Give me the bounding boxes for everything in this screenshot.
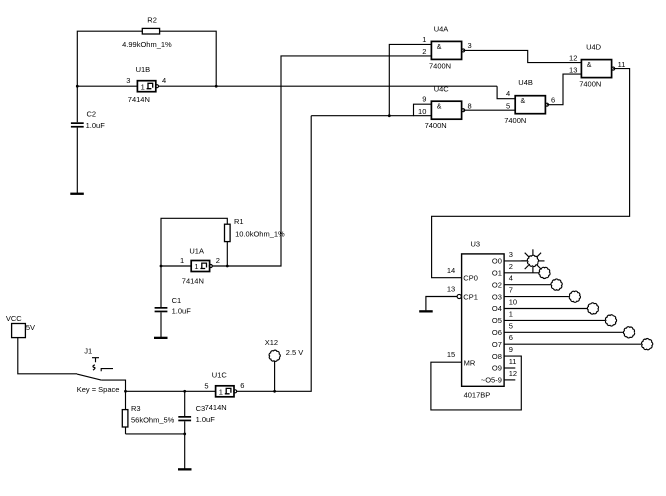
LED lamp on O0 <box>521 249 544 272</box>
power VCC <box>6 314 35 338</box>
svg-text:12: 12 <box>509 369 517 378</box>
svg-text:&: & <box>521 98 526 105</box>
label U4B <box>504 78 533 125</box>
wire MR loop to O8 <box>431 356 521 410</box>
switch J1 <box>77 347 113 381</box>
wire O9 stub <box>504 367 515 369</box>
ground under C1 <box>154 337 168 339</box>
pin numbers 1/2 of U1A <box>180 256 220 265</box>
wire O7 to lamp <box>504 343 641 345</box>
LED lamp on O5 <box>605 315 616 326</box>
svg-text:3: 3 <box>126 76 130 85</box>
svg-text:U4B: U4B <box>518 78 533 87</box>
svg-text:O4: O4 <box>492 304 502 313</box>
pin CP1 <box>447 285 478 302</box>
label U4D <box>579 43 601 89</box>
resistor R3 <box>122 391 174 434</box>
svg-text:14: 14 <box>447 266 455 275</box>
svg-text:2.5 V: 2.5 V <box>286 348 304 357</box>
nand U4A <box>431 41 464 59</box>
capacitor C1 <box>155 296 192 316</box>
svg-text:R3: R3 <box>131 404 141 413</box>
svg-text:7400N: 7400N <box>425 121 447 130</box>
svg-text:7400N: 7400N <box>429 61 451 70</box>
wire U1B input <box>77 85 137 87</box>
svg-text:1: 1 <box>180 256 184 265</box>
wire O4 to lamp <box>504 308 587 310</box>
svg-text:&: & <box>437 104 442 111</box>
svg-text:O6: O6 <box>492 328 502 337</box>
wire O5 to lamp <box>504 319 605 321</box>
svg-text:~O5-9: ~O5-9 <box>481 376 502 385</box>
label U1C <box>212 371 228 380</box>
wire CP1 to ground <box>426 297 457 311</box>
wire O3 to lamp <box>504 296 569 298</box>
svg-text:15: 15 <box>447 350 455 359</box>
svg-text:11: 11 <box>509 357 517 366</box>
wire ~O5-9 stub <box>504 379 515 381</box>
value label 7414N for U1A <box>182 277 204 286</box>
svg-text:7414N: 7414N <box>182 277 204 286</box>
svg-text:9: 9 <box>509 345 513 354</box>
svg-text:R2: R2 <box>147 15 157 24</box>
LED lamp on O6 <box>623 327 634 338</box>
ground under C3 <box>178 468 192 470</box>
svg-text:4.99kOhm_1%: 4.99kOhm_1% <box>122 40 172 49</box>
label U4C <box>425 84 450 130</box>
inverter U1B (7414 schmitt trigger) <box>137 81 158 92</box>
value label 7414N for U1C <box>205 403 227 412</box>
LED lamp on O2 <box>551 279 562 290</box>
wire U1A input to C1 <box>160 266 162 307</box>
label U1A <box>189 247 204 256</box>
ground under C2 <box>70 193 84 195</box>
pin 5 label (O6) <box>492 321 513 337</box>
IC U3 4017BP body <box>462 240 505 400</box>
svg-text:O8: O8 <box>492 352 502 361</box>
svg-text:5V: 5V <box>26 323 35 332</box>
wire U1C output <box>237 116 312 392</box>
svg-text:12: 12 <box>569 54 577 63</box>
node C3/R3 junction <box>183 433 186 436</box>
svg-text:3: 3 <box>509 250 513 259</box>
svg-text:13: 13 <box>569 65 577 74</box>
pin 2 label (O1) <box>492 262 513 278</box>
svg-text:J1: J1 <box>84 347 92 356</box>
svg-text:O5: O5 <box>492 316 502 325</box>
pin 10 label (O4) <box>492 298 517 314</box>
svg-text:&: & <box>587 62 592 69</box>
node C3/rail junction <box>183 390 186 393</box>
svg-text:8: 8 <box>468 101 472 110</box>
resistor R2 <box>122 15 172 49</box>
svg-text:O7: O7 <box>492 340 502 349</box>
LED lamp on O4 <box>587 303 598 314</box>
wire R1 bottom leg <box>226 242 228 266</box>
pin CP0 <box>447 266 478 283</box>
svg-text:1: 1 <box>141 82 145 91</box>
inverter U1C (7414 schmitt trigger) <box>216 386 237 397</box>
wire R1 top loop <box>161 218 227 266</box>
svg-text:1.0uF: 1.0uF <box>86 121 106 130</box>
node U1B input junction <box>76 85 79 88</box>
svg-text:11: 11 <box>618 60 626 69</box>
value label 7414N for U1B <box>128 95 150 104</box>
pin 11 label (O9) <box>492 357 517 373</box>
wire switch to rail <box>101 380 125 391</box>
svg-text:10: 10 <box>418 107 426 116</box>
wire R2 to right leg <box>160 31 217 86</box>
svg-text:1: 1 <box>194 262 198 271</box>
wire U1A input <box>161 265 191 267</box>
wire O1 to lamp <box>504 272 538 274</box>
svg-text:7414N: 7414N <box>128 95 150 104</box>
svg-text:C2: C2 <box>87 110 97 119</box>
svg-text:1: 1 <box>509 309 513 318</box>
svg-text:2: 2 <box>422 47 426 56</box>
svg-text:9: 9 <box>422 95 426 104</box>
svg-text:X12: X12 <box>265 338 278 347</box>
nand U4B <box>515 96 548 114</box>
wire U4C out to U4B pin5 <box>463 109 515 111</box>
node switch/R3 junction <box>124 390 127 393</box>
svg-text:1: 1 <box>219 388 223 397</box>
svg-text:2: 2 <box>509 262 513 271</box>
svg-text:U1C: U1C <box>212 371 228 380</box>
wire O0 to lamp <box>504 260 527 262</box>
pin MR <box>447 350 476 367</box>
pin labels U4C <box>418 95 472 116</box>
resistor R1 <box>225 217 286 242</box>
svg-text:O3: O3 <box>492 292 502 301</box>
svg-text:&: & <box>437 44 442 51</box>
svg-text:U3: U3 <box>471 240 481 249</box>
pin 6 label (O7) <box>492 333 513 349</box>
svg-text:4: 4 <box>509 274 513 283</box>
capacitor C2 <box>71 110 105 130</box>
svg-text:6: 6 <box>551 96 555 105</box>
wire U1B out drop to U4B pin4 <box>497 86 515 99</box>
LED lamp on O1 <box>539 267 550 278</box>
svg-text:O0: O0 <box>492 257 502 266</box>
probe X12 <box>265 338 304 391</box>
wire feed to U4A/U4C inputs <box>311 104 431 116</box>
svg-text:U1A: U1A <box>189 247 204 256</box>
LED lamp on O7 <box>642 339 653 350</box>
svg-text:7414N: 7414N <box>205 403 227 412</box>
svg-text:1: 1 <box>422 35 426 44</box>
node R2/output junction <box>215 85 218 88</box>
svg-text:U4D: U4D <box>586 43 602 52</box>
pin 3 label (O0) <box>492 250 513 266</box>
label U4A <box>429 25 451 71</box>
node feed junction <box>388 114 391 117</box>
svg-text:O2: O2 <box>492 280 502 289</box>
pin numbers 3/4 of U1B <box>126 76 166 85</box>
svg-text:10: 10 <box>509 298 517 307</box>
svg-text:4017BP: 4017BP <box>464 390 491 399</box>
svg-text:5: 5 <box>204 381 208 390</box>
svg-text:1.0uF: 1.0uF <box>196 415 216 424</box>
svg-text:MR: MR <box>464 358 476 367</box>
pin 4 label (O2) <box>492 274 513 290</box>
svg-text:13: 13 <box>447 285 455 294</box>
pin labels U4A <box>422 35 471 56</box>
pin 7 label (O3) <box>492 286 513 302</box>
wire C2 to ground <box>76 128 78 193</box>
wire U1B output <box>159 85 498 87</box>
wire VCC to switch <box>18 338 77 374</box>
capacitor C3 <box>178 391 215 424</box>
pin labels U4B <box>506 89 555 110</box>
svg-text:4: 4 <box>162 76 166 85</box>
wire C1 to ground <box>160 312 162 337</box>
pin numbers 5/6 of U1C <box>204 381 244 390</box>
wire U1A output to U4A pin2 <box>212 56 431 266</box>
svg-text:7400N: 7400N <box>579 80 601 89</box>
svg-text:5: 5 <box>509 321 513 330</box>
node R1/output junction <box>226 265 229 268</box>
wire U4A out to U4D pin12 <box>463 50 581 62</box>
svg-text:3: 3 <box>468 41 472 50</box>
svg-text:U4A: U4A <box>434 25 449 34</box>
label U1B <box>136 65 151 74</box>
svg-text:10.0kOhm_1%: 10.0kOhm_1% <box>235 230 285 239</box>
wire C3 to ground <box>184 421 186 468</box>
svg-text:O1: O1 <box>492 269 502 278</box>
svg-text:CP1: CP1 <box>463 292 478 301</box>
label Key = Space <box>77 385 120 394</box>
nand U4C <box>431 101 464 119</box>
pin 1 label (O5) <box>492 309 513 325</box>
wire R3 bottom to C3 leg <box>126 433 185 435</box>
svg-text:U4C: U4C <box>434 84 450 93</box>
pin 12 label (~O5-9) <box>481 369 517 385</box>
svg-text:7: 7 <box>509 286 513 295</box>
svg-text:6: 6 <box>509 333 513 342</box>
wire O2 to lamp <box>504 284 551 286</box>
svg-text:2: 2 <box>216 256 220 265</box>
node probe junction <box>273 390 276 393</box>
wire to U4A pin1 <box>389 44 431 115</box>
svg-text:1.0uF: 1.0uF <box>172 307 192 316</box>
svg-text:5: 5 <box>506 101 510 110</box>
wire R2 top-left <box>77 31 142 122</box>
svg-text:56kOhm_5%: 56kOhm_5% <box>131 416 175 425</box>
inverter U1A (7414 schmitt trigger) <box>191 261 212 272</box>
wire rail to U1C <box>126 390 216 392</box>
svg-text:7400N: 7400N <box>504 116 526 125</box>
wire O6 to lamp <box>504 331 623 333</box>
nand U4D <box>581 60 614 78</box>
LED lamp on O3 <box>569 291 580 302</box>
wire U4B out to U4D pin13 <box>547 74 581 105</box>
svg-text:C1: C1 <box>172 296 182 305</box>
node U1A input junction <box>160 265 163 268</box>
svg-text:O9: O9 <box>492 364 502 373</box>
svg-text:6: 6 <box>240 381 244 390</box>
svg-text:CP0: CP0 <box>463 274 478 283</box>
pin labels U4D <box>569 54 625 75</box>
wire U4D out to U3 CP0 <box>432 69 630 278</box>
ground at CP1 <box>419 310 433 312</box>
svg-text:U1B: U1B <box>136 65 151 74</box>
svg-text:4: 4 <box>506 89 510 98</box>
svg-text:Key = Space: Key = Space <box>77 385 120 394</box>
svg-text:VCC: VCC <box>6 314 22 323</box>
pin 9 label (O8) <box>492 345 513 361</box>
svg-text:R1: R1 <box>234 217 244 226</box>
wire U4C pin10 stub <box>414 115 432 117</box>
